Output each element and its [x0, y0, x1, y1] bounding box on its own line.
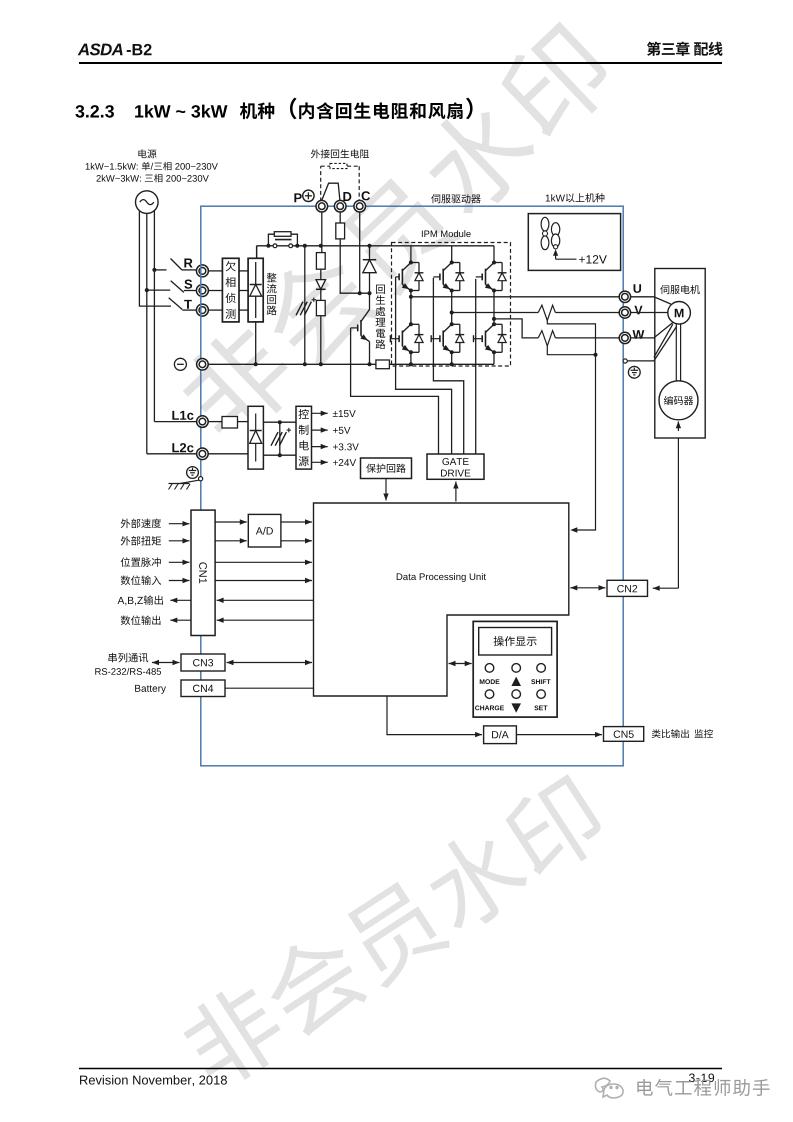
label R [184, 259, 192, 268]
arrow A,B,Z输出 out [170, 599, 191, 601]
label 串列通讯 [108, 653, 116, 662]
block CN4 [181, 680, 225, 697]
text CN2 [617, 585, 624, 592]
junction S tap [145, 288, 149, 292]
transistor IGBT Q1 upper [402, 263, 411, 271]
arrow CN3 to DPU [227, 662, 313, 664]
fan supply arrow [556, 258, 577, 260]
display window [479, 628, 552, 656]
label A,B,Z输出 [118, 597, 125, 604]
header chapter 第三章 配线 [647, 42, 661, 56]
arrow DPU to CN2 [570, 587, 605, 589]
symbol circled minus [174, 358, 186, 370]
resistor bleeder lower [316, 300, 325, 315]
label S [184, 280, 192, 289]
block control rectifier [248, 406, 263, 469]
label D [343, 192, 351, 201]
wire motor frame ground 2 [627, 326, 676, 361]
relay contact bar [275, 239, 292, 241]
arrow DPU to gate drive [455, 482, 457, 502]
terminal N (minus) [197, 359, 209, 371]
label C [362, 191, 371, 200]
label +5V [333, 428, 338, 433]
symbol circled earth PE [187, 467, 199, 479]
label +3.3V [333, 445, 338, 450]
terminal R [196, 265, 208, 277]
transistor IGBT Q5 lower [443, 324, 452, 332]
junction Q3 emitter [492, 289, 496, 293]
text CN4 [193, 685, 200, 692]
footer revision [80, 1076, 88, 1085]
junction rectifier N [254, 362, 258, 366]
wire gate Q1 [396, 277, 452, 454]
button top 3 [537, 664, 546, 673]
title 3.2.3 1kW~3kW 机种（内含回生电阻和风扇） [75, 105, 84, 118]
wire P bus [257, 245, 494, 247]
wire relay left drop [256, 246, 258, 258]
text 操作显示 [494, 636, 504, 646]
wire shield W tail [547, 346, 595, 355]
junction Q1 collector [409, 261, 413, 265]
button bottom 3 [537, 690, 546, 699]
wire shield V tail [547, 321, 595, 355]
arrow 数位输出 out [170, 619, 191, 621]
resistor external regen (dashed) [330, 163, 347, 168]
wire C terminal drop [359, 212, 361, 293]
label L1c [172, 411, 179, 420]
wire phase V left [452, 312, 539, 314]
wire U to motor [631, 297, 671, 304]
wire encoder feedback [677, 438, 679, 588]
junction Q6 collector [492, 322, 496, 326]
terminal C [354, 200, 366, 212]
button bottom 1 [485, 690, 494, 699]
wire control cap link [279, 422, 281, 455]
wire regen gate [351, 328, 439, 454]
wire phase W right [555, 337, 619, 339]
switch blade R [171, 259, 183, 271]
wire rectifier bottom to N bus [255, 322, 257, 364]
block D/A [484, 726, 517, 744]
wire resistor to rectifier2 [238, 421, 249, 423]
wire gate Q3 [475, 279, 477, 454]
terminal V [619, 307, 630, 318]
text CN1 [199, 562, 207, 583]
terminal P [316, 200, 328, 212]
arrow protection to DPU [385, 479, 387, 501]
label W [633, 330, 645, 339]
fan box [528, 214, 620, 271]
text 回生處理電路 [376, 285, 385, 294]
block GATE DRIVE [427, 454, 484, 479]
block CN5 [604, 727, 644, 742]
wire source line A (T phase) [139, 211, 171, 306]
terminal T [196, 304, 208, 316]
text Data Processing Unit [397, 573, 403, 580]
junction regen node [368, 291, 372, 295]
watermark upper 非会员水印 [170, 16, 621, 451]
diode bleeder [316, 280, 326, 290]
terminal S [196, 285, 208, 297]
wire N bus [208, 363, 376, 365]
junction R tap [152, 268, 156, 272]
panel 操作显示 box [473, 621, 557, 717]
text 整流回路 [267, 273, 277, 282]
watermark lower 非会员水印 [174, 769, 612, 1096]
label 类比输出 监控 [652, 729, 661, 738]
wire detect to rectifier R [239, 270, 248, 272]
wire phase V right [555, 312, 619, 314]
ground symbol [180, 480, 199, 483]
label SHIFT [531, 679, 535, 684]
label 数位输入 [121, 576, 131, 586]
transistor IGBT Q4 lower [402, 324, 411, 332]
resistor bleeder upper [316, 253, 325, 270]
junction Q1 emitter [409, 289, 413, 293]
wire Q5 emitter to N bus [451, 352, 453, 364]
wire IPM collector drop Q1 [410, 246, 412, 263]
terminal U [619, 291, 630, 302]
wire V to motor [631, 312, 668, 314]
AC source circle [136, 191, 159, 214]
wire detect to rectifier S [239, 290, 248, 292]
symbol down triangle [511, 703, 521, 712]
block CN3 [181, 654, 225, 671]
diode regen return [369, 246, 371, 260]
junction Q2 collector [450, 261, 454, 265]
wire detect to rectifier T [239, 309, 248, 311]
encoder circle [659, 381, 698, 420]
block CN1 [191, 510, 215, 635]
wire bus capacitor [304, 246, 306, 364]
resistor control input [222, 417, 238, 429]
wire Q6 emitter to N bus [493, 352, 495, 364]
label 电源 [138, 149, 146, 158]
text CN3 [193, 659, 200, 666]
wire P terminal drop [321, 212, 323, 253]
junction N bus Q4 [409, 362, 413, 366]
arrow DPU to panel [449, 663, 472, 665]
junction P bus [319, 244, 323, 248]
wire phase link Q2 [451, 291, 453, 325]
rectifier diode symbol [255, 262, 257, 285]
button bottom 2 [512, 690, 521, 699]
label 位置脉冲 [121, 557, 130, 567]
label V [634, 306, 642, 315]
switch blade S [171, 281, 184, 293]
text 控制电源 [299, 409, 309, 419]
wire IPM collector drop Q3 [493, 246, 495, 263]
junction Q2 emitter [450, 289, 454, 293]
block Data Processing Unit [314, 503, 569, 696]
block CN2 [607, 580, 648, 596]
label U [634, 284, 642, 293]
twist symbol V [538, 305, 555, 320]
wire S to detect [208, 290, 222, 292]
junction diode P bus [368, 244, 372, 248]
footer page number [689, 1073, 695, 1082]
label P [294, 193, 301, 202]
wire phase U [411, 296, 619, 298]
arrow supply +24V [312, 461, 328, 463]
label 伺服驱动器 [431, 194, 440, 203]
arrow A/D to DPU 2 [281, 540, 312, 542]
label RS-232/RS-485 [95, 668, 101, 675]
label 外部速度 [121, 519, 131, 528]
label 1kW以上机种 [546, 195, 550, 202]
terminal PE small circle [199, 477, 203, 481]
block 保护回路 [361, 458, 412, 479]
junction Q5 emitter [450, 350, 454, 354]
junction bleeder N [319, 362, 323, 366]
logo ASDA-B2 [78, 44, 89, 56]
junction shield node [594, 353, 598, 357]
label 1kW~1.5kW spec [86, 163, 90, 169]
servo drive outline box [201, 206, 623, 766]
wire control dc top [263, 421, 296, 423]
wire D terminal drop [339, 212, 341, 223]
arrow supply +3.3V [312, 446, 328, 448]
wire DPU DA drop [387, 696, 482, 735]
wire gate Q2 [433, 278, 463, 454]
arrow A/D to DPU 1 [281, 521, 312, 523]
junction phase tap U [409, 295, 413, 299]
arrow DPU to CN1 ABZ [217, 599, 314, 601]
jumper P-D [322, 183, 340, 200]
label 编码器 [664, 396, 673, 405]
junction control cap bottom [278, 453, 282, 457]
label T [184, 300, 192, 309]
label IPM Module [421, 231, 424, 237]
label +12V [579, 257, 585, 263]
junction phase tap V [450, 311, 454, 315]
watermark badge text [637, 1079, 652, 1096]
junction Q6 emitter [492, 350, 496, 354]
dashed box IPM module [392, 243, 511, 367]
label MODE [480, 679, 485, 684]
transistor IGBT Q2 upper [443, 263, 452, 271]
label CHARGE [475, 705, 479, 710]
junction Q4 emitter [409, 350, 413, 354]
terminal D [334, 200, 346, 212]
wire R to detect [208, 270, 222, 272]
wire T to detect [208, 309, 222, 311]
wire bleeder mid1 [320, 269, 322, 279]
symbol up triangle [511, 677, 521, 686]
wire rectifier top to P bus [256, 246, 258, 258]
label ±15V [333, 411, 338, 417]
arrow 数位输入 in [169, 580, 190, 582]
junction control cap top [278, 420, 282, 424]
terminal small ground [623, 359, 627, 363]
label 外部扭矩 [121, 536, 131, 545]
wire source line C (R phase / L1c) [153, 211, 155, 422]
label 2kW~3kW spec [96, 175, 100, 182]
resistor regen D [336, 223, 345, 239]
wire D resistor down [340, 239, 369, 293]
wire W to motor [631, 322, 673, 338]
wire N bus right [389, 363, 494, 365]
wire IPM collector drop Q2 [451, 246, 453, 263]
label +24V [333, 460, 338, 465]
arrow supply +5V [312, 429, 328, 431]
switch blade T [169, 298, 183, 310]
terminal L2c [197, 448, 209, 460]
junction Q5 collector [450, 322, 454, 326]
wire phase W left [494, 319, 538, 338]
watermark badge logo [596, 1078, 624, 1098]
terminal L1c [197, 416, 209, 428]
relay contact circles [273, 244, 277, 248]
label 伺服电机 [660, 285, 669, 294]
text D/A [492, 731, 498, 738]
block A/D [248, 514, 281, 547]
header rule [79, 62, 722, 64]
arrow CN1 to A/D 2 [215, 540, 247, 542]
capacitor DC bus [296, 302, 303, 316]
text 保护回路 [366, 464, 376, 473]
wire phase link Q1 [410, 291, 412, 325]
motor shaft [675, 324, 677, 381]
resistor N line [376, 360, 390, 369]
button top 1 [485, 664, 494, 673]
servo motor box [655, 269, 705, 439]
arrow CN1 to A/D 1 [215, 521, 247, 523]
junction regen emitter N [368, 362, 372, 366]
arrow serial io [152, 662, 180, 664]
junction relay right [295, 244, 299, 248]
block 欠相侦测 [222, 258, 239, 322]
wire L2c to rectifier2 [208, 453, 248, 455]
junction N bus Q5 [450, 362, 454, 366]
twist symbol W [538, 331, 555, 346]
wire S feed [147, 289, 170, 291]
arrow 位置脉冲 in [169, 561, 190, 563]
symbol circled earth motor [628, 366, 640, 378]
button top 2 [512, 664, 521, 673]
motor circle M [668, 302, 691, 325]
transistor IGBT Q3 upper [486, 263, 495, 271]
capacitor control dc [271, 432, 278, 446]
wire R feed [154, 269, 166, 271]
wire motor frame ground 1 [654, 324, 673, 357]
label 外接回生电阻 [311, 149, 320, 158]
relay bypass resistor [268, 234, 274, 246]
block 整流回路 rectifier [248, 258, 263, 322]
wire shield to DPU [576, 355, 596, 530]
wire bleeder to N [320, 316, 322, 365]
arrow supply ±15V [312, 412, 328, 414]
label SET [534, 705, 538, 710]
arrow 外部速度 in [169, 523, 190, 525]
wire CN4 to DPU [225, 687, 314, 689]
text 欠相侦测 [226, 261, 236, 271]
label L2c [172, 443, 179, 452]
arrow CN1 to DPU pulse [215, 561, 312, 563]
dashed box external regen resistor [320, 166, 322, 201]
junction cap P [303, 244, 307, 248]
symbol circled plus [303, 190, 314, 201]
transistor regen IGBT [369, 293, 371, 309]
text GATE DRIVE [442, 458, 449, 465]
arrow DPU to CN1 digital out [217, 619, 314, 621]
label 数位输出 [121, 616, 131, 626]
text CN5 [614, 730, 621, 737]
fan blades [541, 217, 549, 231]
wire bleeder mid2 [320, 289, 322, 300]
control rectifier diode [255, 414, 257, 431]
wire source line B (S phase / L2c) [146, 213, 148, 453]
junction cap N [303, 362, 307, 366]
wire phase link Q3 [493, 291, 495, 325]
arrow 外部扭矩 in [169, 540, 190, 542]
label Battery [135, 685, 140, 692]
arrow D/A to CN5 [516, 734, 602, 736]
block 控制电源 [296, 406, 312, 469]
junction Q4 collector [409, 322, 413, 326]
junction C node [358, 291, 362, 295]
terminal W [619, 332, 630, 343]
junction relay left [266, 244, 270, 248]
junction Q3 collector [492, 261, 496, 265]
wire control dc bottom [263, 454, 296, 456]
wire L1c to resistor [208, 421, 222, 423]
footer rule [79, 1068, 722, 1070]
transistor IGBT Q6 lower [486, 324, 495, 332]
junction phase tap W [492, 317, 496, 321]
wire Q4 emitter to N bus [410, 352, 412, 364]
text A/D [256, 527, 263, 534]
arrow CN1 to DPU digital in [215, 580, 312, 582]
